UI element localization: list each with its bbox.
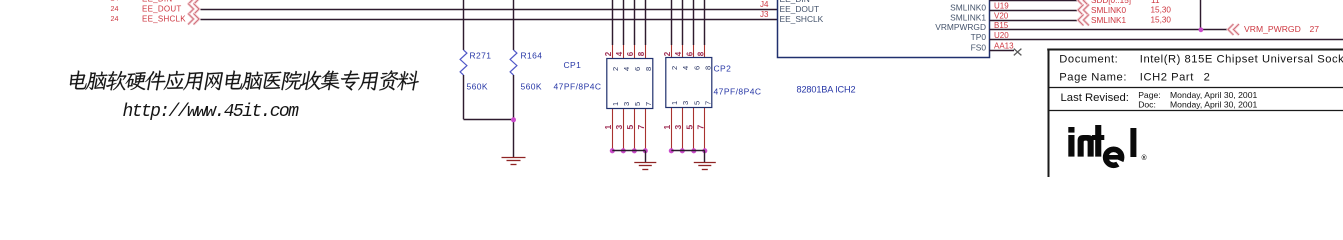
- svg-text:5: 5: [625, 125, 635, 130]
- svg-text:15,30: 15,30: [1151, 16, 1172, 25]
- svg-text:8: 8: [644, 67, 653, 71]
- svg-text:V20: V20: [994, 12, 1009, 21]
- svg-text:2: 2: [611, 67, 620, 71]
- svg-text:3: 3: [673, 125, 683, 130]
- svg-text:560K: 560K: [521, 81, 542, 91]
- svg-text:EE_SHCLK: EE_SHCLK: [142, 15, 186, 24]
- svg-text:560K: 560K: [467, 81, 488, 91]
- svg-text:EE_DIN: EE_DIN: [142, 0, 172, 3]
- svg-text:3: 3: [681, 101, 690, 105]
- svg-text:SMLINK0: SMLINK0: [1091, 6, 1126, 15]
- svg-text:Last Revised:: Last Revised:: [1061, 92, 1129, 104]
- svg-text:4: 4: [615, 51, 624, 56]
- svg-text:47PF/8P4C: 47PF/8P4C: [554, 81, 602, 91]
- svg-text:CP1: CP1: [564, 60, 582, 70]
- svg-text:47PF/8P4C: 47PF/8P4C: [714, 87, 762, 97]
- svg-text:EE_DOUT: EE_DOUT: [142, 5, 182, 14]
- svg-text:VRM_PWRGD: VRM_PWRGD: [1244, 24, 1301, 34]
- svg-text:R271: R271: [470, 51, 492, 61]
- svg-text:5: 5: [633, 102, 642, 106]
- svg-text:VRMPWRGD: VRMPWRGD: [935, 22, 986, 32]
- svg-text:J3: J3: [760, 10, 769, 19]
- svg-text:11: 11: [1151, 0, 1160, 5]
- svg-text:FS0: FS0: [971, 43, 987, 53]
- svg-text:8: 8: [697, 51, 706, 56]
- svg-text:7: 7: [644, 102, 653, 106]
- svg-text:4: 4: [674, 51, 683, 56]
- svg-text:1: 1: [662, 125, 672, 130]
- svg-text:6: 6: [633, 67, 642, 71]
- svg-text:Page Name:: Page Name:: [1059, 72, 1127, 84]
- svg-text:82801BA ICH2: 82801BA ICH2: [797, 85, 856, 95]
- svg-text:U20: U20: [994, 31, 1009, 40]
- svg-text:SDD[0..15]: SDD[0..15]: [1091, 0, 1131, 5]
- svg-text:7: 7: [636, 125, 646, 130]
- svg-text:5: 5: [692, 101, 701, 105]
- svg-text:4: 4: [622, 67, 631, 71]
- svg-text:3: 3: [622, 102, 631, 106]
- svg-text:7: 7: [696, 125, 706, 130]
- svg-text:Doc:: Doc:: [1138, 100, 1156, 110]
- svg-text:4: 4: [681, 66, 690, 70]
- svg-text:R164: R164: [521, 51, 543, 61]
- svg-text:U19: U19: [994, 2, 1009, 11]
- svg-text:24: 24: [111, 0, 119, 3]
- svg-text:2: 2: [670, 66, 679, 70]
- svg-text:3: 3: [614, 125, 624, 130]
- svg-text:®: ®: [1142, 154, 1148, 162]
- svg-text:24: 24: [111, 4, 119, 13]
- svg-text:EE_DOUT: EE_DOUT: [780, 4, 820, 14]
- svg-text:B15: B15: [994, 21, 1009, 30]
- svg-text:2: 2: [663, 51, 672, 56]
- svg-text:15,30: 15,30: [1151, 6, 1172, 15]
- svg-text:1: 1: [670, 101, 679, 105]
- svg-text:Document:: Document:: [1059, 53, 1118, 65]
- svg-text:2: 2: [604, 51, 613, 56]
- svg-text:Intel(R) 815E Chipset Universa: Intel(R) 815E Chipset Universal Socket 3…: [1140, 53, 1343, 65]
- svg-text:TP0: TP0: [971, 32, 987, 42]
- svg-text:1: 1: [603, 125, 613, 130]
- svg-text:6: 6: [686, 51, 695, 56]
- svg-text:J4: J4: [760, 0, 769, 9]
- svg-text:1: 1: [611, 102, 620, 106]
- svg-text:AA13: AA13: [994, 42, 1014, 51]
- svg-text:SMLINK1: SMLINK1: [950, 13, 986, 23]
- svg-text:http://www.45it.com: http://www.45it.com: [123, 102, 300, 122]
- svg-text:8: 8: [703, 66, 712, 70]
- svg-text:5: 5: [685, 125, 695, 130]
- svg-text:6: 6: [626, 51, 635, 56]
- svg-text:6: 6: [692, 66, 701, 70]
- svg-text:SMLINK1: SMLINK1: [1091, 16, 1126, 25]
- svg-text:24: 24: [111, 14, 119, 23]
- svg-text:8: 8: [637, 51, 646, 56]
- svg-text:ICH2 Part 2: ICH2 Part 2: [1140, 72, 1211, 84]
- svg-text:CP2: CP2: [714, 64, 732, 74]
- svg-text:7: 7: [703, 101, 712, 105]
- svg-text:Monday, April 30, 2001: Monday, April 30, 2001: [1170, 100, 1257, 110]
- svg-text:EE_SHCLK: EE_SHCLK: [780, 14, 824, 24]
- svg-text:SMLINK0: SMLINK0: [950, 3, 986, 13]
- svg-text:27: 27: [1310, 24, 1320, 34]
